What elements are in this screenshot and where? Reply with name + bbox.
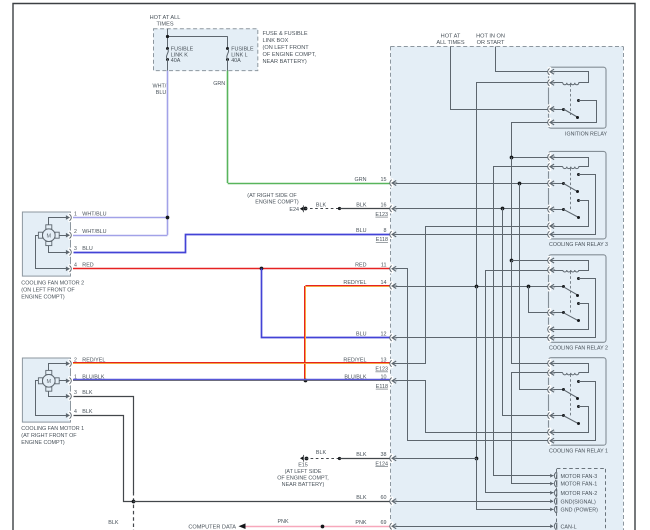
motor 1 internal wires xyxy=(49,364,67,371)
svg-text:E24: E24 xyxy=(289,207,299,213)
svg-text:BLK: BLK xyxy=(356,203,367,209)
junction coil feed at relay 2 xyxy=(510,259,514,263)
harness box pin at y=337.8 xyxy=(390,333,394,342)
svg-text:(AT RIGHT SIDE OF: (AT RIGHT SIDE OF xyxy=(247,193,297,199)
COOLING FAN RELAY 2 pin 6 xyxy=(548,333,552,342)
svg-text:E124: E124 xyxy=(375,461,388,467)
COOLING FAN RELAY 1 pin 1 xyxy=(548,359,552,368)
svg-text:69: 69 xyxy=(381,520,387,526)
svg-text:COOLING FAN RELAY 3: COOLING FAN RELAY 3 xyxy=(549,242,608,248)
connector E24 inline xyxy=(300,207,303,211)
wire BLU/BLK motor1 pin1 to pin 10 xyxy=(73,379,390,381)
motor 2 pin 2 xyxy=(68,231,72,240)
harness box pin at y=363.5 xyxy=(390,359,394,368)
junction RED/BLU splice xyxy=(260,267,264,271)
svg-text:GRN: GRN xyxy=(213,81,225,87)
wire WHT/BLU motor2 pin1 row xyxy=(73,217,167,219)
ECM pin MOTOR FAN-2 xyxy=(550,491,553,495)
svg-text:15: 15 xyxy=(381,177,387,183)
svg-text:GND (POWER): GND (POWER) xyxy=(561,508,599,514)
COOLING FAN RELAY 1 contact 2 to pin 5 xyxy=(577,405,580,408)
COOLING FAN RELAY 1 pin 4 xyxy=(548,411,552,420)
wire relay 1 pin 2 to MOTOR FAN-1 xyxy=(512,373,554,484)
wire BLK 60 row to pin 60 xyxy=(133,501,390,503)
junction on feed xyxy=(166,35,169,38)
COOLING FAN RELAY 2 pin 3 xyxy=(548,282,552,291)
svg-text:RED/YEL: RED/YEL xyxy=(343,280,366,286)
wire BLU motor2 pin3 to pin 8 xyxy=(74,235,391,253)
COOLING FAN RELAY 3 switch 2 xyxy=(554,209,564,211)
wire relay 3 pin 5 to RED/YEL pin 13 row xyxy=(396,227,554,364)
svg-text:COMPUTER DATA: COMPUTER DATA xyxy=(188,524,236,530)
svg-text:LINK BOX: LINK BOX xyxy=(263,38,289,44)
svg-text:(AT RIGHT FRONT OF: (AT RIGHT FRONT OF xyxy=(21,433,77,439)
svg-text:BLU: BLU xyxy=(356,332,367,338)
COOLING FAN RELAY 2 pin 1 xyxy=(548,256,552,265)
wire WHT/BLU motor2 pin2 row xyxy=(73,235,167,237)
svg-text:BLU: BLU xyxy=(156,90,167,96)
COOLING FAN RELAY 3 pin 4 xyxy=(548,205,552,214)
wire RED/YEL pin 14 row to relay 2 pin 3 xyxy=(396,286,554,288)
svg-text:3: 3 xyxy=(74,246,77,252)
svg-text:OF ENGINE COMPT,: OF ENGINE COMPT, xyxy=(277,476,329,482)
ECM pin CAN-L xyxy=(550,524,553,528)
svg-text:BLK: BLK xyxy=(316,450,327,456)
ECM pin GND (POWER) xyxy=(550,508,553,512)
svg-text:10: 10 xyxy=(381,375,387,381)
svg-text:BLK: BLK xyxy=(356,452,367,458)
motor 2 pin 1 xyxy=(68,213,72,222)
wire ground chain to GND(POWER) xyxy=(477,459,554,510)
motor 1 symbol xyxy=(46,370,52,374)
IGNITION RELAY box xyxy=(549,67,607,128)
harness box pin at y=234.4 xyxy=(390,230,394,239)
ECM pin GND(SIGNAL) xyxy=(550,499,553,503)
COOLING FAN RELAY 1 coil loop xyxy=(554,364,589,373)
motor 2 pin 3 xyxy=(68,248,72,257)
svg-text:8: 8 xyxy=(384,228,387,234)
COOLING FAN RELAY 2 pin 4 xyxy=(548,308,552,317)
wire BLK pin 16 row to relay 3 pin 4 xyxy=(396,208,554,210)
harness box pin at y=501.2 xyxy=(390,497,394,506)
svg-text:NEAR BATTERY): NEAR BATTERY) xyxy=(263,59,307,65)
COOLING FAN RELAY 2 box xyxy=(549,255,607,342)
svg-text:OF ENGINE COMPT,: OF ENGINE COMPT, xyxy=(263,52,317,58)
COOLING FAN RELAY 3 contact 1 to pin 6 xyxy=(577,173,580,176)
svg-text:(AT LEFT SIDE: (AT LEFT SIDE xyxy=(285,469,322,475)
COOLING FAN RELAY 2 switch 1 xyxy=(554,286,564,288)
wire relay 2 pin 2 to MOTOR FAN-2 xyxy=(486,271,554,493)
junction GRN branch xyxy=(518,182,522,186)
IGNITION RELAY switch 1 xyxy=(554,109,564,111)
svg-text:(ON LEFT FRONT: (ON LEFT FRONT xyxy=(263,45,310,51)
motor 1 pin 4 xyxy=(68,411,72,420)
COOLING FAN RELAY 1 pin 5 xyxy=(548,428,552,437)
wire BLK 16 row to pin 16 xyxy=(340,208,391,210)
IGNITION RELAY coil loop xyxy=(554,72,589,83)
svg-text:HOT AT: HOT AT xyxy=(441,34,461,40)
COOLING FAN RELAY 1 contact 1 to pin 6 xyxy=(577,380,580,383)
COOLING FAN RELAY 2 contact 2 to pin 5 xyxy=(577,302,580,305)
svg-text:MOTOR FAN-3: MOTOR FAN-3 xyxy=(561,474,598,480)
svg-text:GND(SIGNAL): GND(SIGNAL) xyxy=(561,499,597,505)
svg-text:COOLING FAN RELAY 1: COOLING FAN RELAY 1 xyxy=(549,448,608,454)
wire hot-in-on feed to ignition relay pin 1 xyxy=(496,47,554,72)
wire BLU pin 12 row to relay 2 pin 6 xyxy=(396,337,554,339)
motor 1 pin 3 xyxy=(68,392,72,401)
harness box pin at y=183.0 xyxy=(390,178,394,187)
COOLING FAN RELAY 2 armature dashed link xyxy=(570,272,572,315)
wire coil feed down to relay 1 pin 1 xyxy=(512,261,554,364)
junction PNK xyxy=(321,525,325,529)
svg-text:BLK: BLK xyxy=(82,409,93,415)
motor 2 symbol xyxy=(46,225,52,229)
wire coil feed to relay 2 pin 1 xyxy=(512,260,554,262)
wire BLU pin 8 row to relay 3 pin 6 xyxy=(396,234,554,236)
wire relay coil feed chain to fan relay 3 pin 1 xyxy=(512,157,554,159)
connector E15 inline xyxy=(300,456,303,460)
fusible link K 40A xyxy=(166,47,169,50)
wire GRN branch to relay 1 pin 3 xyxy=(520,184,554,390)
IGNITION RELAY pin 3 xyxy=(548,104,552,113)
COOLING FAN RELAY 1 coil xyxy=(563,373,579,375)
computer data arrow xyxy=(239,523,246,529)
svg-text:13: 13 xyxy=(381,357,387,363)
svg-text:BLK: BLK xyxy=(108,520,119,526)
svg-text:40A: 40A xyxy=(171,58,181,64)
junction pin14/ground-chain crossing xyxy=(475,285,479,289)
svg-text:BLK: BLK xyxy=(82,390,93,396)
IGNITION RELAY pin 2 xyxy=(548,78,552,87)
wire BLK motor1 pin3 ground run xyxy=(74,397,134,493)
svg-text:ENGINE COMPT): ENGINE COMPT) xyxy=(255,200,299,206)
COOLING FAN RELAY 3 pin 5 xyxy=(548,221,552,230)
svg-text:RED: RED xyxy=(82,263,93,269)
svg-text:TIMES: TIMES xyxy=(156,22,173,28)
svg-text:BLU/BLK: BLU/BLK xyxy=(344,375,367,381)
wire BLK16 branch to relay 1 pin 4 xyxy=(503,209,554,416)
IGNITION RELAY pin 4 xyxy=(548,118,552,127)
junction BLK ground xyxy=(132,500,136,504)
COOLING FAN RELAY 3 contact 2 to pin 5 xyxy=(577,199,580,202)
svg-text:4: 4 xyxy=(74,409,77,415)
svg-text:RED/YEL: RED/YEL xyxy=(343,357,366,363)
svg-text:PNK: PNK xyxy=(355,520,366,526)
wire PNK row to CAN-L xyxy=(396,526,553,528)
svg-text:COOLING FAN MOTOR 2: COOLING FAN MOTOR 2 xyxy=(21,280,84,286)
wire feed inside fuse box xyxy=(167,29,169,49)
svg-text:OR START: OR START xyxy=(477,40,505,46)
svg-text:BLK: BLK xyxy=(356,495,367,501)
COOLING FAN RELAY 1 pin 6 xyxy=(548,436,552,445)
COOLING FAN RELAY 3 pin 6 xyxy=(548,230,552,239)
wire ignition relay pin 2 to ground chain xyxy=(477,83,554,287)
COOLING FAN RELAY 2 switch 2 xyxy=(554,312,564,314)
COOLING FAN RELAY 1 pin 2 xyxy=(548,368,552,377)
svg-text:WHT/BLU: WHT/BLU xyxy=(82,229,106,235)
wire PNK to pin 69 xyxy=(246,526,391,528)
wire RED/YEL motor1 pin2 to pin 13 xyxy=(73,362,390,364)
junction WHT/BLU xyxy=(166,216,170,220)
wire BLU branch down to pin 12 row xyxy=(262,269,391,338)
COOLING FAN RELAY 2 coil xyxy=(563,270,579,272)
svg-text:BLK: BLK xyxy=(316,203,327,209)
svg-text:16: 16 xyxy=(381,203,387,209)
COOLING FAN RELAY 2 contact 1 to pin 6 xyxy=(577,277,580,280)
COOLING FAN RELAY 2 pin 2 xyxy=(548,265,552,274)
COOLING FAN RELAY 3 pin 2 xyxy=(548,162,552,171)
COOLING FAN RELAY 3 pin 3 xyxy=(548,179,552,188)
motor 1 pin 1 xyxy=(68,376,72,385)
COOLING FAN RELAY 2 pin 5 xyxy=(548,325,552,334)
wire BLK 38 row to pin 38 xyxy=(339,458,390,460)
junction pin14 branch xyxy=(527,285,531,289)
COOLING FAN RELAY 1 armature dashed link xyxy=(570,374,572,417)
junction BLK16 branch xyxy=(501,207,505,211)
wire relay 3 pin 2 to MOTOR FAN-3 xyxy=(494,167,554,476)
svg-text:(ON LEFT FRONT OF: (ON LEFT FRONT OF xyxy=(21,287,75,293)
wire ignition relay pin 4 switched feed down xyxy=(512,123,554,158)
COOLING FAN RELAY 1 pin 3 xyxy=(548,385,552,394)
svg-text:BLU: BLU xyxy=(356,228,367,234)
COOLING FAN RELAY 3 armature dashed link xyxy=(570,168,572,211)
svg-text:COOLING FAN RELAY 2: COOLING FAN RELAY 2 xyxy=(549,346,608,352)
junction coil feed at relay 3 xyxy=(510,156,514,160)
svg-text:WHT/: WHT/ xyxy=(153,84,167,90)
wire BLU/BLK pin 10 row to relay 1 pin 5 xyxy=(396,381,554,433)
svg-text:ENGINE COMPT): ENGINE COMPT) xyxy=(21,440,65,446)
svg-text:4: 4 xyxy=(74,263,77,269)
svg-text:11: 11 xyxy=(381,263,387,269)
svg-text:BLU: BLU xyxy=(82,246,93,252)
svg-text:HOT AT ALL: HOT AT ALL xyxy=(150,15,181,21)
svg-text:MOTOR FAN-2: MOTOR FAN-2 xyxy=(561,491,598,497)
svg-text:PNK: PNK xyxy=(277,519,288,525)
ECM connector dashed box xyxy=(557,468,606,470)
wire GRN vertical from fusible link L xyxy=(227,71,229,183)
link K lower stub xyxy=(167,59,169,71)
wire RED/YEL vertical branch xyxy=(304,286,306,381)
motor 1 pin 2 xyxy=(68,359,72,368)
motor 2 internal wires xyxy=(49,218,67,225)
svg-text:HOT IN ON: HOT IN ON xyxy=(476,34,505,40)
IGNITION RELAY coil xyxy=(563,83,579,85)
wire RED motor2 pin4 to pin 11 xyxy=(73,268,390,270)
COOLING FAN RELAY 3 box xyxy=(549,151,607,239)
harness box pin at y=526.2 xyxy=(390,522,394,530)
svg-text:NEAR BATTERY): NEAR BATTERY) xyxy=(282,482,325,488)
svg-text:E15: E15 xyxy=(298,463,308,469)
wire pin14 branch to relay 2 pin 4 xyxy=(529,287,554,313)
wire GRN pin 15 row to relay 3 pin 3 xyxy=(396,183,554,185)
COOLING FAN RELAY 3 switch 1 xyxy=(554,183,564,185)
wire BLK motor1 pin4 to BLK 60 row xyxy=(74,416,134,502)
svg-text:60: 60 xyxy=(381,495,387,501)
harness box pin at y=268.8 xyxy=(390,264,394,273)
svg-text:CAN-L: CAN-L xyxy=(561,524,577,530)
svg-text:12: 12 xyxy=(381,332,387,338)
ECM pin MOTOR FAN-3 xyxy=(550,474,553,478)
svg-text:IGNITION RELAY: IGNITION RELAY xyxy=(565,131,607,137)
svg-text:2: 2 xyxy=(74,229,77,235)
COOLING FAN RELAY 2 coil loop xyxy=(554,261,589,271)
COOLING FAN RELAY 1 switch 1 xyxy=(554,389,564,391)
svg-text:M: M xyxy=(47,379,52,385)
svg-text:ALL TIMES: ALL TIMES xyxy=(436,40,465,46)
wire RED pin 11 row to relay 1 pin 6 xyxy=(396,269,554,441)
svg-text:14: 14 xyxy=(381,280,387,286)
cooling fan motor 1 box xyxy=(22,358,70,422)
svg-text:E118: E118 xyxy=(376,384,388,390)
junction RED/YEL to BLU/BLK xyxy=(304,379,308,383)
svg-text:FUSE & FUSIBLE: FUSE & FUSIBLE xyxy=(263,31,308,37)
fuse and fusible link box xyxy=(154,29,258,71)
harness box pin at y=286.0 xyxy=(390,281,394,290)
motor 2 pin 4 xyxy=(68,264,72,273)
svg-text:MOTOR FAN-1: MOTOR FAN-1 xyxy=(561,482,598,488)
ECM pin MOTOR FAN-1 xyxy=(550,482,553,486)
wire WHT/BLU vertical from fusible link K xyxy=(167,71,169,235)
harness/ECM compartment dashed box xyxy=(391,46,623,530)
svg-text:E123: E123 xyxy=(375,212,388,218)
COOLING FAN RELAY 3 coil xyxy=(563,167,579,169)
harness box pin at y=458.3 xyxy=(390,454,394,463)
IGNITION RELAY contact to pin 4 xyxy=(577,99,580,102)
wire BLK 60 row to GND(SIGNAL) xyxy=(396,501,553,503)
wire hot-at-all-times feed to ignition relay pin 3 xyxy=(451,47,554,110)
svg-text:1: 1 xyxy=(74,211,77,217)
svg-text:3: 3 xyxy=(74,390,77,396)
COOLING FAN RELAY 1 box xyxy=(549,358,607,446)
svg-text:WHT/BLU: WHT/BLU xyxy=(82,211,106,217)
svg-text:ENGINE COMPT): ENGINE COMPT) xyxy=(21,294,65,300)
harness box pin at y=380.8 xyxy=(390,376,394,385)
svg-text:E118: E118 xyxy=(376,237,388,243)
COOLING FAN RELAY 3 pin 1 xyxy=(548,153,552,162)
svg-text:RED: RED xyxy=(355,263,366,269)
wire BLK 38 row xyxy=(396,458,477,460)
cooling fan motor 2 box xyxy=(22,212,70,276)
link L lower stub xyxy=(227,59,229,71)
IGNITION RELAY armature dashed link xyxy=(570,84,572,115)
svg-text:M: M xyxy=(47,233,52,239)
COOLING FAN RELAY 3 coil loop xyxy=(554,158,589,167)
junction ground chain at BLK 38 row xyxy=(475,457,479,461)
fusible link L 40A xyxy=(226,47,229,50)
wire RED/YEL pin 14 row xyxy=(305,285,390,287)
svg-text:38: 38 xyxy=(381,452,387,458)
COOLING FAN RELAY 1 switch 2 xyxy=(554,415,564,417)
svg-text:COOLING FAN MOTOR 1: COOLING FAN MOTOR 1 xyxy=(21,426,84,432)
wire ground chain continues xyxy=(476,286,478,458)
IGNITION RELAY pin 1 xyxy=(548,67,552,76)
svg-text:40A: 40A xyxy=(231,58,241,64)
harness box pin at y=208.8 xyxy=(390,204,394,213)
svg-text:GRN: GRN xyxy=(355,177,367,183)
wire GRN horizontal to pin 15 xyxy=(228,183,390,185)
svg-text:E123: E123 xyxy=(375,367,388,373)
